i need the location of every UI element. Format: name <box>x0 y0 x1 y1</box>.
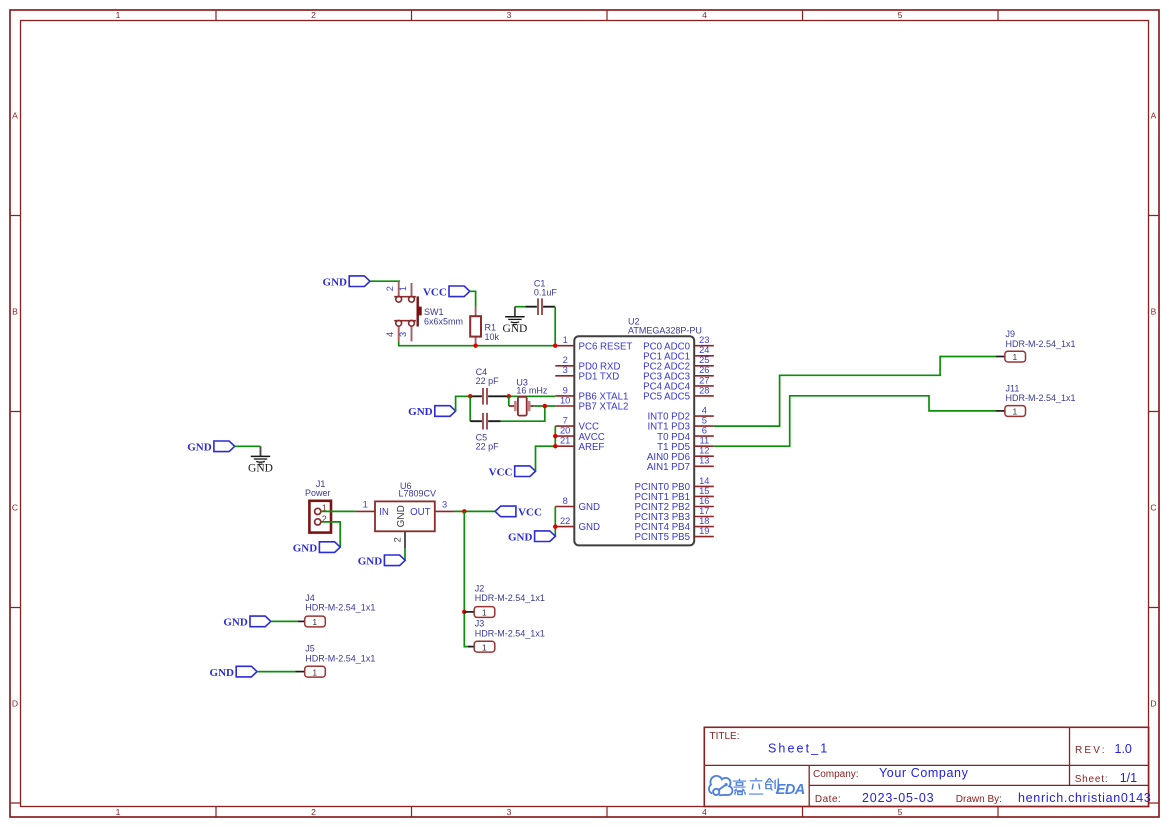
ground flag net GND (crystal) <box>408 406 455 419</box>
ground flag net GND (J5) <box>210 666 257 679</box>
capacitor C1 0.1uF <box>525 278 557 315</box>
svg-text:1: 1 <box>482 642 487 652</box>
node junction AREF pin21 <box>553 444 558 449</box>
svg-text:4: 4 <box>702 10 707 20</box>
svg-text:5: 5 <box>702 416 707 426</box>
svg-text:A: A <box>12 111 18 121</box>
svg-text:REV:: REV: <box>1075 745 1107 756</box>
connector J9 HDR-M-2.54_1x1 <box>996 329 1076 362</box>
ground flag net GND (left) <box>187 441 234 454</box>
svg-text:5: 5 <box>898 807 903 817</box>
svg-text:25: 25 <box>699 355 709 365</box>
wire GND rail pins 8/22 <box>554 507 556 537</box>
svg-text:1: 1 <box>116 10 121 20</box>
svg-text:HDR-M-2.54_1x1: HDR-M-2.54_1x1 <box>305 603 375 613</box>
capacitor C4 22pF <box>470 367 509 404</box>
U2 pin 12 AIN0 PD6 <box>647 446 714 463</box>
svg-text:10: 10 <box>560 395 570 405</box>
svg-text:11: 11 <box>699 436 709 446</box>
wire J1 pin1 to U6 IN <box>322 510 356 512</box>
wire VCC to R1 <box>470 291 476 307</box>
svg-text:PCINT5 PB5: PCINT5 PB5 <box>635 532 690 543</box>
svg-text:EDA: EDA <box>776 782 805 798</box>
svg-text:3: 3 <box>507 10 512 20</box>
U2 pin 17 PCINT3 PB3 <box>635 506 714 523</box>
wire U6 OUT to VCC node <box>455 510 496 512</box>
node junction crystal right <box>543 404 548 409</box>
svg-text:D: D <box>12 699 18 709</box>
U2 pin 8 GND <box>555 496 600 513</box>
svg-text:5: 5 <box>898 10 903 20</box>
svg-text:IN: IN <box>379 507 389 518</box>
svg-text:18: 18 <box>699 516 709 526</box>
svg-text:GND: GND <box>293 542 318 554</box>
node junction C1/pin1 <box>553 343 558 348</box>
wire C5 to crystal right node <box>501 406 545 421</box>
svg-text:4: 4 <box>385 332 395 337</box>
wire pin5 to J9 <box>714 357 996 427</box>
U2 pin 28 PC5 ADC5 <box>643 385 714 402</box>
svg-text:16 mHz: 16 mHz <box>516 385 548 395</box>
svg-text:PB7 XTAL2: PB7 XTAL2 <box>579 402 629 413</box>
wire C4 rail to XTAL1 pin9 <box>509 395 556 397</box>
U2 pin 3 PD1 TXD <box>555 365 619 382</box>
power flag VCC (AREF rail) <box>489 466 536 479</box>
svg-text:4: 4 <box>702 405 707 415</box>
switch SW1 6x6x5mm <box>385 281 463 341</box>
ground symbol GND (near C1) <box>502 307 527 335</box>
svg-text:J11: J11 <box>1006 383 1020 393</box>
wire SW1 pin4 to node RESET rail <box>399 341 556 345</box>
U2 pin 7 VCC <box>555 416 599 433</box>
node junction C4 left <box>468 394 473 399</box>
svg-text:GND: GND <box>210 667 235 679</box>
wire crystal to XTAL2 pin10 <box>534 405 555 407</box>
svg-text:23: 23 <box>699 335 709 345</box>
svg-text:22: 22 <box>560 516 570 526</box>
U2 pin 18 PCINT4 PB4 <box>635 516 714 533</box>
U2 pin 1 PC6 RESET <box>555 335 632 352</box>
svg-text:2: 2 <box>385 286 395 291</box>
svg-text:27: 27 <box>699 375 709 385</box>
svg-text:PC5 ADC5: PC5 ADC5 <box>643 392 690 403</box>
svg-text:A: A <box>1151 111 1157 121</box>
wire pin11 to J11 <box>714 396 996 446</box>
svg-text:J4: J4 <box>305 593 315 603</box>
svg-text:HDR-M-2.54_1x1: HDR-M-2.54_1x1 <box>1006 393 1076 403</box>
svg-text:17: 17 <box>699 506 709 516</box>
svg-text:R1: R1 <box>485 323 497 333</box>
svg-text:HDR-M-2.54_1x1: HDR-M-2.54_1x1 <box>1006 339 1076 349</box>
wire flag to ground symbol <box>235 445 261 447</box>
svg-text:GND: GND <box>502 323 527 335</box>
svg-text:3: 3 <box>442 499 447 509</box>
ground flag net GND (J1) <box>293 542 340 555</box>
node junction AVCC pin20 <box>553 434 558 439</box>
ground flag net GND (J4) <box>223 616 270 629</box>
svg-text:L7809CV: L7809CV <box>399 489 437 499</box>
svg-text:VCC: VCC <box>489 466 513 478</box>
svg-text:2023-05-03: 2023-05-03 <box>862 791 934 805</box>
svg-text:12: 12 <box>699 446 709 456</box>
svg-text:9: 9 <box>563 385 568 395</box>
U2 pin 27 PC4 ADC4 <box>643 375 714 392</box>
U2 pin 4 INT0 PD2 <box>647 405 713 422</box>
svg-text:26: 26 <box>699 365 709 375</box>
svg-text:2: 2 <box>311 807 316 817</box>
svg-text:1: 1 <box>398 286 408 291</box>
svg-text:Company:: Company: <box>813 769 859 780</box>
svg-text:SW1: SW1 <box>424 307 444 317</box>
U2 pin 15 PCINT1 PB1 <box>635 486 714 503</box>
svg-text:henrich.christian0143: henrich.christian0143 <box>1018 791 1152 805</box>
svg-text:10k: 10k <box>485 332 500 342</box>
svg-text:D: D <box>1150 699 1156 709</box>
JLC EDA logo <box>709 776 805 798</box>
svg-text:GND: GND <box>396 505 407 527</box>
ground flag net GND (U6) <box>358 555 405 568</box>
svg-text:3: 3 <box>398 332 408 337</box>
svg-text:1: 1 <box>1013 407 1018 417</box>
title block <box>704 727 1151 806</box>
ground symbol GND (left) <box>248 446 273 474</box>
svg-text:22 pF: 22 pF <box>476 441 500 451</box>
svg-text:1: 1 <box>1013 352 1018 362</box>
wire left leg down to C5 <box>469 396 471 421</box>
U2 pin 24 PC1 ADC1 <box>643 345 714 362</box>
U2 pin 23 PC0 ADC0 <box>643 335 714 352</box>
capacitor C5 22pF <box>470 413 500 452</box>
svg-text:Power: Power <box>305 488 331 498</box>
U2 pin 14 PCINT0 PB0 <box>635 476 714 493</box>
svg-text:Drawn By:: Drawn By: <box>956 794 1002 805</box>
svg-text:19: 19 <box>699 526 709 536</box>
wire C1 left to ground <box>515 306 525 308</box>
node junction R1/reset rail <box>473 343 478 348</box>
svg-text:GND: GND <box>579 522 601 533</box>
svg-text:28: 28 <box>699 385 709 395</box>
node junction GND pin22 <box>553 524 558 529</box>
svg-text:C: C <box>12 503 18 513</box>
U2 pin 16 PCINT2 PB2 <box>635 496 714 513</box>
svg-text:VCC: VCC <box>423 287 447 299</box>
svg-text:3: 3 <box>507 807 512 817</box>
connector J3 HDR-M-2.54_1x1 <box>468 619 545 653</box>
svg-text:2: 2 <box>393 537 403 542</box>
svg-text:GND: GND <box>358 556 383 568</box>
svg-text:16: 16 <box>699 496 709 506</box>
svg-text:1: 1 <box>482 608 487 618</box>
wire J1 pin2 down to GND <box>322 522 341 547</box>
svg-text:HDR-M-2.54_1x1: HDR-M-2.54_1x1 <box>475 593 545 603</box>
connector J5 HDR-M-2.54_1x1 <box>296 644 376 678</box>
connector J11 HDR-M-2.54_1x1 <box>996 383 1076 416</box>
svg-text:1: 1 <box>563 335 568 345</box>
svg-text:1: 1 <box>312 617 317 627</box>
U2 pin 21 AREF <box>555 436 604 453</box>
wire GND to J5 <box>257 671 296 673</box>
U2 pin 10 PB7 XTAL2 <box>555 395 628 412</box>
node junction J2 tap <box>462 610 467 615</box>
svg-text:6: 6 <box>702 426 707 436</box>
ground flag net GND (U2 pins 8/22) <box>508 531 555 544</box>
svg-text:14: 14 <box>699 476 709 486</box>
svg-text:GND: GND <box>323 276 348 288</box>
svg-text:J2: J2 <box>475 583 485 593</box>
node junction C4 right / crystal <box>507 394 512 399</box>
svg-text:4: 4 <box>702 807 707 817</box>
svg-text:8: 8 <box>563 496 568 506</box>
svg-text:1/1: 1/1 <box>1120 771 1137 785</box>
svg-text:J5: J5 <box>305 644 315 654</box>
svg-text:1: 1 <box>312 667 317 677</box>
svg-text:VCC: VCC <box>518 507 542 519</box>
wire GND flag to SW1 pin 2 <box>370 280 400 282</box>
svg-text:1.0: 1.0 <box>1115 742 1132 756</box>
svg-text:20: 20 <box>560 426 570 436</box>
svg-text:1: 1 <box>116 807 121 817</box>
svg-text:2: 2 <box>311 10 316 20</box>
U2 pin 6 T0 PD4 <box>657 426 714 443</box>
svg-text:15: 15 <box>699 486 709 496</box>
U2 pin 2 PD0 RXD <box>555 355 620 372</box>
svg-text:1: 1 <box>363 499 368 509</box>
svg-text:OUT: OUT <box>410 507 431 518</box>
wire C1 to reset node <box>554 307 556 346</box>
crystal U3 16 mHz <box>509 377 548 415</box>
svg-text:GND: GND <box>223 617 248 629</box>
svg-text:B: B <box>12 307 18 317</box>
svg-text:TITLE:: TITLE: <box>710 731 740 742</box>
power flag VCC (U6 out, mirrored) <box>495 506 542 518</box>
ground flag net GND (top left) <box>323 276 370 289</box>
svg-text:HDR-M-2.54_1x1: HDR-M-2.54_1x1 <box>305 653 375 663</box>
wire VCC node down to J2/J3 <box>464 511 471 646</box>
U2 pin 22 GND <box>555 516 600 533</box>
svg-text:ATMEGA328P-PU: ATMEGA328P-PU <box>628 325 702 335</box>
node junction VCC out <box>462 509 467 514</box>
svg-text:Sheet_1: Sheet_1 <box>768 741 829 755</box>
svg-text:7: 7 <box>563 416 568 426</box>
U2 pin 9 PB6 XTAL1 <box>555 385 628 402</box>
svg-text:HDR-M-2.54_1x1: HDR-M-2.54_1x1 <box>475 628 545 638</box>
svg-text:GND: GND <box>248 463 273 475</box>
svg-text:GND: GND <box>579 502 601 513</box>
svg-text:Date:: Date: <box>815 794 841 805</box>
wire VCC rail pins 7/20/21 <box>536 426 556 471</box>
svg-text:GND: GND <box>508 531 533 543</box>
op-amp U2 ATMEGA328P-PU <box>574 317 702 546</box>
svg-text:3: 3 <box>563 365 568 375</box>
svg-text:21: 21 <box>560 436 570 446</box>
U2 pin 19 PCINT5 PB5 <box>635 526 714 543</box>
svg-text:AIN1 PD7: AIN1 PD7 <box>647 462 690 473</box>
svg-text:PD1 TXD: PD1 TXD <box>579 371 620 382</box>
connector J2 HDR-M-2.54_1x1 <box>464 583 545 617</box>
resistor R1 10k <box>470 307 499 346</box>
U2 pin 11 T1 PD5 <box>657 436 714 453</box>
svg-text:0.1uF: 0.1uF <box>534 287 558 297</box>
power flag VCC (top) <box>423 286 470 299</box>
svg-text:B: B <box>1151 307 1157 317</box>
U2 pin 5 INT1 PD3 <box>647 416 713 433</box>
U2 pin 25 PC2 ADC2 <box>643 355 714 372</box>
U2 pin 20 AVCC <box>555 426 604 443</box>
wire GND to J4 <box>271 620 298 622</box>
svg-text:24: 24 <box>699 345 709 355</box>
connector J4 HDR-M-2.54_1x1 <box>298 593 375 627</box>
svg-text:Your Company: Your Company <box>879 766 969 780</box>
svg-text:AREF: AREF <box>579 442 605 453</box>
wire U6 pin2 to GND flag <box>404 548 406 560</box>
connector J1 Power <box>305 479 331 533</box>
svg-text:C: C <box>1150 503 1156 513</box>
U2 pin 13 AIN1 PD7 <box>647 456 714 473</box>
svg-text:13: 13 <box>699 456 709 466</box>
svg-text:J9: J9 <box>1006 329 1016 339</box>
svg-text:PC6 RESET: PC6 RESET <box>579 341 633 352</box>
wire GND flag up to C4 rail <box>456 396 471 411</box>
svg-text:J3: J3 <box>475 619 485 629</box>
svg-text:GND: GND <box>408 406 433 418</box>
svg-text:GND: GND <box>187 442 212 454</box>
regulator U6 L7809CV <box>356 481 455 548</box>
svg-text:22 pF: 22 pF <box>476 376 500 386</box>
U2 pin 26 PC3 ADC3 <box>643 365 714 382</box>
svg-text:6x6x5mm: 6x6x5mm <box>424 316 463 326</box>
svg-text:2: 2 <box>563 355 568 365</box>
svg-text:Sheet:: Sheet: <box>1075 774 1109 785</box>
